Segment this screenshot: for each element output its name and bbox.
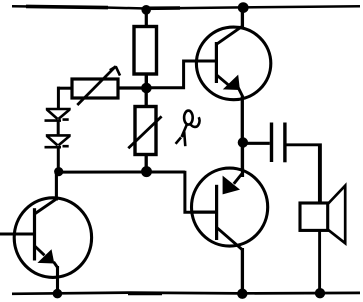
Q2 base wire inside xyxy=(192,211,217,214)
VR1 arrowhead barbs xyxy=(110,66,120,75)
Q1 emitter arrow xyxy=(223,75,240,90)
node junction dot diode bottom xyxy=(54,167,63,176)
wire Q1 emitter down xyxy=(241,97,244,144)
Q1 collector diagonal xyxy=(216,26,242,44)
transistor Q3 circle xyxy=(14,198,91,278)
handwritten squiggle annotation xyxy=(176,111,200,147)
diode D1 xyxy=(45,109,71,121)
wire Q3 collector up to node xyxy=(55,172,58,201)
node junction dot top rail right xyxy=(238,2,249,13)
Q1 base bar xyxy=(215,42,218,83)
transistor Q1 circle xyxy=(196,27,270,100)
node junction dot R2 bottom xyxy=(141,166,152,177)
node junction dot bottom left xyxy=(53,289,63,299)
node junction dot bottom right xyxy=(315,288,325,298)
speaker LS1 cone xyxy=(327,186,345,244)
wire bottom rail xyxy=(12,293,360,294)
Q1 emitter diagonal xyxy=(217,75,230,86)
Q3 emitter diagonal xyxy=(35,246,45,255)
capacitor C1 plate 1 xyxy=(270,123,273,163)
wire Q2 top lead xyxy=(241,143,244,177)
diode D2 xyxy=(45,135,71,147)
capacitor C1 plate 2 xyxy=(283,123,286,163)
Q1 emitter tail xyxy=(238,88,243,97)
wire bend down to diodes xyxy=(57,87,60,110)
Q2 top stub inside xyxy=(241,168,244,177)
resistor R1 xyxy=(134,27,157,75)
Q3 emitter arrow xyxy=(37,249,54,263)
Q2 emitter diagonal xyxy=(234,173,243,184)
wire top supply rail xyxy=(12,6,360,8)
wire C1 left lead xyxy=(242,142,269,145)
Q2 collector diagonal xyxy=(217,227,243,250)
wire speaker bottom lead xyxy=(318,229,321,293)
wire Q1 base path xyxy=(147,61,217,88)
wire Q2 base path from node row xyxy=(185,171,216,212)
Q2 emitter arrow xyxy=(223,176,240,195)
transistor Q2 circle xyxy=(192,168,268,246)
wire VR1 left lead xyxy=(58,87,72,90)
wire VR1 right lead xyxy=(118,86,147,89)
node junction dot top rail left xyxy=(141,5,151,15)
wire Q1 collector to rail xyxy=(241,8,244,28)
VR1 arrow diagonal xyxy=(77,66,115,105)
node junction dot R1/R2/VR1 xyxy=(141,83,152,94)
resistor R2 (with slash) xyxy=(135,107,156,155)
Q3 base bar xyxy=(33,208,36,260)
wire speaker top lead xyxy=(318,145,321,204)
Q3 base wire xyxy=(0,233,35,236)
wire R1 top lead xyxy=(145,9,148,28)
node junction dot bottom middle xyxy=(237,289,247,299)
wire D1-D2 xyxy=(57,120,60,136)
R2 slash xyxy=(128,116,161,148)
Q2 base bar xyxy=(215,185,218,240)
speaker LS1 box xyxy=(300,203,328,230)
wire R2 top lead xyxy=(145,88,148,107)
Q1 base wire inside xyxy=(197,60,216,63)
wire R1 bottom lead xyxy=(145,74,148,89)
wire Q3 emitter down to rail xyxy=(56,266,59,294)
Q3 emitter tail xyxy=(54,262,58,268)
wire D2 to node xyxy=(57,147,60,172)
wire Q2 collector down to rail xyxy=(241,248,244,294)
resistor VR1 (variable, horizontal) xyxy=(72,79,118,98)
wire top rail thick segment xyxy=(26,6,180,8)
wire C1 right lead with bend down xyxy=(287,145,321,204)
wire R2 bottom lead xyxy=(145,155,148,173)
Q3 collector diagonal xyxy=(35,199,56,214)
node junction dot Q1 emitter / C1 xyxy=(238,137,248,147)
wire horizontal node row y=172 xyxy=(58,171,185,174)
